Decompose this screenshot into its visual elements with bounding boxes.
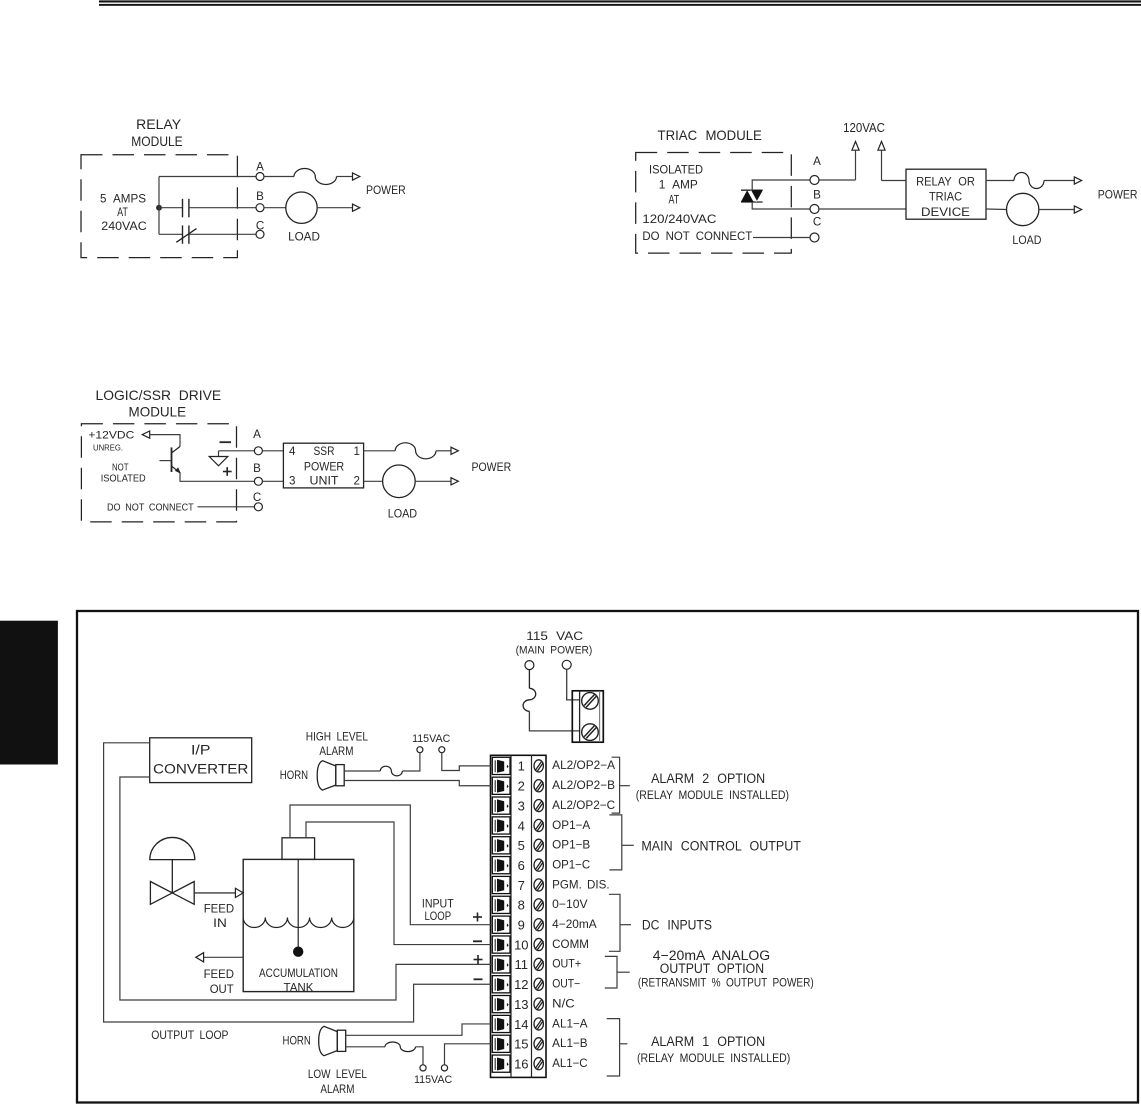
- terminal 14 connector: [492, 1015, 510, 1032]
- SSR power unit box U2: [283, 443, 363, 488]
- level probe float: [294, 947, 303, 956]
- liquid surface waves: [243, 918, 354, 928]
- terminal 9 connector: [492, 916, 510, 933]
- wire: terminal B to ssr unit pin 3: [262, 480, 283, 482]
- svg-text:DO NOT CONNECT: DO NOT CONNECT: [642, 230, 752, 243]
- svg-text:16: 16: [514, 1056, 528, 1071]
- bracket: alarm 2 group (terminals 1-3): [612, 757, 620, 813]
- label FEED IN: [204, 903, 234, 931]
- terminal 16 screw: [534, 1058, 543, 1070]
- power arrow (triac top): [1074, 177, 1081, 184]
- terminal 1 connector: [492, 757, 510, 774]
- wire: +12VDC to transistor collector: [150, 435, 180, 447]
- valve stem: [171, 860, 173, 893]
- svg-text:MODULE: MODULE: [129, 404, 187, 420]
- valve actuator dome: [150, 837, 195, 859]
- bracket: analog output (terminals 11-12): [605, 956, 617, 988]
- svg-text:INPUT: INPUT: [422, 898, 454, 911]
- svg-text:0−10V: 0−10V: [552, 899, 588, 911]
- svg-text:10: 10: [514, 937, 528, 952]
- svg-text:ACCUMULATION: ACCUMULATION: [259, 967, 338, 980]
- terminal 2 connector: [492, 777, 510, 794]
- wire: ground to terminal A: [219, 450, 255, 452]
- svg-text:(RETRANSMIT % OUTPUT POWER): (RETRANSMIT % OUTPUT POWER): [638, 977, 814, 989]
- svg-text:8: 8: [518, 898, 525, 913]
- svg-text:13: 13: [514, 997, 528, 1012]
- label FEED OUT: [204, 968, 234, 996]
- terminal 6 connector: [492, 857, 510, 874]
- label ACCUMULATION TANK: [259, 967, 338, 995]
- fuse F6 (low alarm): [385, 1042, 416, 1052]
- wire: device to load: [986, 208, 1007, 211]
- svg-text:C: C: [813, 216, 821, 229]
- svg-text:ISOLATED: ISOLATED: [649, 164, 703, 177]
- wire: fuse to 115vac terminal (low): [416, 1047, 424, 1065]
- fuse F1 (power line): [294, 169, 337, 185]
- fuse F3 (ssr power line): [395, 443, 436, 459]
- terminal A: [256, 161, 264, 181]
- svg-text:MODULE: MODULE: [131, 133, 182, 149]
- load L1 (lamp circle): [286, 192, 317, 223]
- power arrow (ssr bottom): [451, 478, 458, 485]
- svg-text:POWER: POWER: [1098, 189, 1138, 202]
- svg-text:1 AMP: 1 AMP: [659, 179, 698, 192]
- svg-text:1: 1: [518, 759, 525, 774]
- power arrow (triac bottom): [1074, 206, 1081, 213]
- ground symbol: [209, 451, 228, 466]
- node: relay common junction: [157, 205, 162, 210]
- svg-text:15: 15: [514, 1037, 528, 1052]
- terminal 5 screw: [534, 839, 543, 851]
- svg-text:AL2/OP2−C: AL2/OP2−C: [552, 800, 615, 812]
- svg-text:FEED: FEED: [204, 968, 234, 981]
- bracket tick alarm 2: [620, 785, 630, 787]
- svg-text:3: 3: [289, 474, 295, 487]
- svg-text:TRIAC MODULE: TRIAC MODULE: [658, 127, 762, 143]
- main power terminal circle L: [525, 661, 534, 670]
- label 4-20mA ANALOG OUTPUT OPTION: [638, 948, 814, 990]
- terminal A (logic): [253, 428, 262, 455]
- terminal 3 connector: [492, 797, 510, 814]
- label plus (below ground): [223, 467, 232, 476]
- svg-text:ALARM 2 OPTION: ALARM 2 OPTION: [651, 771, 765, 786]
- triac Q1 (bidirectional thyristor): [741, 190, 763, 202]
- svg-text:4: 4: [518, 818, 525, 833]
- svg-text:COMM: COMM: [552, 939, 589, 951]
- wire: C line left of contact: [159, 233, 182, 235]
- svg-text:LOW LEVEL: LOW LEVEL: [308, 1068, 367, 1081]
- wire: load to power arrow: [1039, 209, 1074, 211]
- svg-text:240VAC: 240VAC: [101, 220, 146, 233]
- svg-text:AL2/OP2−B: AL2/OP2−B: [552, 780, 615, 792]
- svg-text:OP1−B: OP1−B: [552, 840, 590, 852]
- wire: load to power arrow: [317, 207, 352, 209]
- terminal 8 connector: [492, 896, 510, 913]
- terminal 6 screw: [534, 859, 543, 871]
- wire: load to power arrow: [415, 480, 450, 482]
- terminal 11 screw: [534, 958, 543, 970]
- terminal 7 screw: [534, 879, 543, 891]
- terminal B (logic): [253, 462, 262, 486]
- svg-text:4: 4: [289, 445, 296, 458]
- svg-text:115VAC: 115VAC: [414, 1074, 452, 1086]
- svg-text:2: 2: [518, 779, 525, 794]
- svg-text:AL2/OP2−A: AL2/OP2−A: [552, 760, 615, 772]
- wire: fuse to power block lower screw: [529, 711, 579, 731]
- svg-text:C: C: [253, 491, 261, 504]
- 115vac circle 2 (low): [441, 1065, 447, 1071]
- accumulation tank body: [243, 859, 354, 991]
- svg-text:ALARM: ALARM: [320, 1083, 354, 1096]
- logic/ssr drive module title: [96, 387, 222, 419]
- wire: fuse to power arrow: [337, 176, 353, 178]
- svg-text:PGM. DIS.: PGM. DIS.: [552, 879, 609, 891]
- label 115 VAC (MAIN POWER): [516, 629, 593, 657]
- svg-text:TANK: TANK: [284, 982, 314, 995]
- bracket tick analog output: [617, 971, 630, 973]
- level probe: [297, 860, 299, 947]
- terminal 1 screw: [534, 760, 543, 772]
- terminal C (triac): [810, 216, 821, 242]
- bracket: main control output (terminals 4-6): [609, 815, 621, 870]
- I/P converter box: [150, 738, 252, 783]
- wire: terminal A to fuse: [264, 176, 294, 178]
- 115vac circle 1 (high): [417, 747, 423, 753]
- terminal 12 connector: [492, 976, 510, 993]
- svg-text:POWER: POWER: [366, 184, 406, 197]
- +12VDC arrow (open, pointing left): [142, 431, 150, 438]
- svg-text:14: 14: [514, 1017, 528, 1032]
- relay module title: [131, 116, 182, 149]
- svg-text:CONVERTER: CONVERTER: [153, 761, 248, 777]
- svg-text:DO NOT CONNECT: DO NOT CONNECT: [107, 502, 194, 514]
- svg-text:1: 1: [354, 445, 360, 458]
- svg-text:AL1−B: AL1−B: [552, 1038, 588, 1050]
- wire: device to fuse: [986, 180, 1014, 182]
- svg-text:A: A: [253, 428, 261, 441]
- svg-text:6: 6: [518, 858, 525, 873]
- svg-text:9: 9: [518, 918, 525, 933]
- svg-text:POWER: POWER: [472, 461, 512, 474]
- power block screw 1: [582, 693, 599, 710]
- page edge black tab: [0, 621, 58, 765]
- feed out arrow: [196, 953, 243, 962]
- terminal 9 screw: [534, 919, 543, 931]
- relay-or-triac device box U1: [906, 169, 986, 219]
- svg-text:OUTPUT OPTION: OUTPUT OPTION: [660, 961, 764, 976]
- svg-text:DEVICE: DEVICE: [921, 205, 970, 219]
- wire: 115vac to terminal 1: [442, 753, 493, 771]
- svg-text:OUT: OUT: [210, 983, 234, 996]
- fuse F4 (main power): [523, 688, 536, 711]
- svg-text:LOOP: LOOP: [424, 910, 451, 923]
- terminal 16 connector: [492, 1055, 510, 1072]
- svg-text:7: 7: [518, 878, 525, 893]
- svg-text:UNREG.: UNREG.: [93, 443, 123, 453]
- power arrow (top): [353, 173, 360, 180]
- terminal B (triac): [810, 188, 821, 213]
- svg-text:RELAY: RELAY: [136, 116, 182, 132]
- svg-text:AL1−C: AL1−C: [552, 1058, 587, 1070]
- wire: pin 1 to fuse: [364, 450, 396, 452]
- terminal 8 screw: [534, 899, 543, 911]
- wire: B line right of contact: [189, 207, 256, 209]
- svg-text:FEED: FEED: [204, 903, 234, 916]
- terminal 10 screw: [534, 938, 543, 950]
- svg-text:TRIAC: TRIAC: [929, 190, 962, 204]
- power terminal block: [572, 691, 603, 742]
- wire: horn top to terminal 14: [346, 1024, 493, 1035]
- svg-text:POWER: POWER: [304, 461, 344, 474]
- wire: terminal A to supply: [819, 179, 856, 181]
- svg-text:A: A: [256, 161, 264, 174]
- svg-text:HIGH LEVEL: HIGH LEVEL: [306, 730, 369, 743]
- load L2 (lamp circle): [1007, 193, 1039, 225]
- svg-text:ALARM: ALARM: [319, 745, 353, 758]
- svg-text:(RELAY MODULE INSTALLED): (RELAY MODULE INSTALLED): [636, 790, 789, 802]
- terminal 4 connector: [492, 817, 510, 834]
- terminal 4 screw: [534, 819, 543, 831]
- terminal 15 connector: [492, 1035, 510, 1052]
- svg-text:AT: AT: [668, 194, 679, 207]
- terminal C (logic): [253, 491, 263, 511]
- wire: terminal B to device: [819, 208, 906, 210]
- wire: fuse to 115vac terminal: [402, 753, 420, 772]
- svg-text:(MAIN POWER): (MAIN POWER): [516, 645, 593, 657]
- wire: N terminal to power block upper screw: [567, 669, 580, 700]
- svg-text:LOAD: LOAD: [288, 230, 320, 243]
- svg-text:A: A: [813, 155, 821, 168]
- wire: probe + to terminal 9 (input loop): [290, 805, 493, 925]
- 115vac circle 2 (high): [439, 747, 445, 753]
- terminal 12 screw: [534, 978, 543, 990]
- svg-text:HORN: HORN: [283, 1035, 311, 1048]
- svg-text:I/P: I/P: [191, 742, 210, 758]
- svg-text:11: 11: [515, 957, 529, 972]
- power arrow (ssr top): [451, 447, 458, 454]
- relay contact (NC) on C: [176, 225, 196, 243]
- terminal 13 connector: [492, 996, 510, 1013]
- terminal C: [256, 220, 264, 239]
- svg-text:120VAC: 120VAC: [843, 121, 885, 135]
- tank lid: [282, 838, 315, 860]
- wire: common vertical: [158, 177, 160, 235]
- svg-text:RELAY OR: RELAY OR: [916, 175, 975, 189]
- relay contact (NO) on B: [183, 199, 189, 218]
- label NOT ISOLATED: [101, 462, 146, 484]
- wire: fuse to power arrow: [436, 450, 451, 452]
- relay module dashed enclosure: [81, 155, 237, 258]
- minus sign (terminal 10): [473, 940, 482, 942]
- svg-text:LOAD: LOAD: [1012, 234, 1041, 247]
- svg-text:B: B: [253, 462, 261, 475]
- plus sign (terminal 9): [473, 913, 482, 922]
- svg-text:4−20mA: 4−20mA: [552, 919, 597, 931]
- svg-text:B: B: [256, 190, 264, 203]
- svg-text:ALARM 1 OPTION: ALARM 1 OPTION: [651, 1034, 765, 1049]
- svg-text:SSR: SSR: [314, 445, 335, 458]
- terminal 7 connector: [492, 876, 510, 893]
- svg-text:B: B: [813, 188, 821, 201]
- wire: emitter to B line: [180, 473, 254, 481]
- svg-text:OP1−C: OP1−C: [552, 859, 590, 871]
- label ALARM 1 OPTION: [637, 1034, 790, 1065]
- svg-text:MAIN CONTROL OUTPUT: MAIN CONTROL OUTPUT: [641, 838, 801, 853]
- wire: horn top to fuse: [344, 770, 380, 772]
- svg-text:AL1−A: AL1−A: [552, 1018, 588, 1030]
- label minus (above ground): [220, 441, 232, 443]
- wire: C line right of contact: [189, 233, 256, 235]
- wire: probe - to terminal 10: [306, 822, 493, 945]
- wire: converter output + (to terminal 11): [120, 777, 493, 1000]
- logic module dashed enclosure: [81, 424, 236, 522]
- terminal 3 screw: [534, 800, 543, 812]
- transistor Q2 (NPN driver): [160, 447, 181, 474]
- terminal 2 screw: [534, 780, 543, 792]
- svg-text:120/240VAC: 120/240VAC: [642, 213, 716, 226]
- 120VAC supply arrow 1: [852, 142, 859, 181]
- svg-text:OP1−A: OP1−A: [552, 820, 590, 832]
- bracket tick main control: [622, 844, 634, 846]
- triac module rating label: [642, 164, 716, 226]
- svg-text:NOT: NOT: [112, 462, 129, 473]
- bracket: dc inputs (terminals 8-10): [609, 894, 620, 951]
- triac module dashed enclosure: [636, 153, 792, 254]
- feed in arrow: [194, 888, 243, 897]
- main power terminal circle N: [562, 660, 571, 669]
- svg-text:IN: IN: [213, 917, 227, 930]
- load L3 (lamp circle): [383, 465, 416, 498]
- 115vac circle 1 (low): [420, 1065, 426, 1071]
- wire: horn bottom to fuse: [346, 1046, 385, 1048]
- svg-text:LOAD: LOAD: [388, 507, 417, 520]
- terminal 15 screw: [534, 1038, 543, 1050]
- svg-text:ISOLATED: ISOLATED: [101, 473, 146, 484]
- wire: fuse to power arrow: [1044, 180, 1074, 182]
- svg-text:AT: AT: [117, 206, 128, 219]
- bracket: alarm 1 group (terminals 14-16): [607, 1019, 620, 1076]
- wire: supply arrow 2 to device: [882, 180, 907, 182]
- relay module rating label 5 AMPS AT 240VAC: [100, 193, 147, 234]
- svg-text:LOGIC/SSR DRIVE: LOGIC/SSR DRIVE: [96, 387, 222, 403]
- svg-text:OUTPUT LOOP: OUTPUT LOOP: [151, 1029, 228, 1042]
- page header double rule: [99, 0, 1141, 5]
- svg-text:HORN: HORN: [280, 769, 308, 782]
- wire: DO NOT CONNECT to terminal C: [753, 237, 810, 239]
- 120VAC supply arrow 2: [878, 142, 885, 181]
- wire: horn bottom to terminal 2: [344, 781, 492, 786]
- wire: B line left of contact: [159, 207, 182, 209]
- fuse F2 (triac power line): [1014, 173, 1044, 189]
- terminal A (triac): [810, 155, 821, 185]
- terminal B: [256, 190, 264, 212]
- terminal 11 connector: [492, 956, 510, 973]
- wire: triac to B line: [752, 202, 810, 209]
- svg-text:DC INPUTS: DC INPUTS: [642, 917, 712, 932]
- terminal strip body: [491, 755, 547, 1077]
- label INPUT LOOP: [422, 898, 454, 923]
- svg-text:OUT+: OUT+: [552, 959, 581, 971]
- svg-text:5: 5: [518, 838, 525, 853]
- wire: L terminal down to fuse: [528, 670, 530, 689]
- terminal 14 screw: [534, 1018, 543, 1030]
- svg-text:12: 12: [514, 977, 528, 992]
- svg-text:+12VDC: +12VDC: [88, 430, 134, 442]
- svg-text:3: 3: [518, 798, 525, 813]
- svg-text:115 VAC: 115 VAC: [526, 629, 583, 643]
- terminal 5 connector: [492, 837, 510, 854]
- wire: converter output loop (to terminal 12): [104, 743, 493, 1022]
- power arrow (bottom): [353, 204, 360, 211]
- label ALARM 2 OPTION: [636, 771, 789, 802]
- svg-text:N/C: N/C: [552, 998, 574, 1010]
- label HIGH LEVEL ALARM: [306, 730, 369, 758]
- wire: DO NOT CONNECT to terminal C: [198, 506, 255, 508]
- wire: terminal B to load: [264, 207, 286, 209]
- svg-text:OUT−: OUT−: [552, 979, 580, 991]
- wire: pin 2 to load: [364, 480, 383, 482]
- wire: triac to A line: [752, 180, 810, 190]
- control valve body: [150, 882, 194, 905]
- svg-text:UNIT: UNIT: [310, 474, 339, 487]
- application diagram border: [77, 611, 1138, 1103]
- svg-text:(RELAY MODULE INSTALLED): (RELAY MODULE INSTALLED): [637, 1053, 790, 1065]
- minus sign (terminal 12): [474, 978, 483, 980]
- svg-text:115VAC: 115VAC: [412, 733, 450, 745]
- label LOW LEVEL ALARM: [308, 1068, 367, 1096]
- plus sign (terminal 11): [474, 955, 483, 964]
- horn H1 (high level): [317, 761, 344, 790]
- bracket tick alarm 1: [620, 1043, 628, 1045]
- wire: A line to terminal: [159, 176, 256, 178]
- terminal 10 connector: [492, 936, 510, 953]
- fuse F5 (high alarm): [380, 766, 402, 776]
- wire: terminal A to ssr unit pin 4: [262, 450, 283, 452]
- bracket tick dc inputs: [620, 924, 631, 926]
- horn H2 (low level): [319, 1026, 346, 1055]
- terminal 13 screw: [534, 998, 543, 1010]
- svg-text:5 AMPS: 5 AMPS: [100, 193, 146, 206]
- power block screw 2: [582, 724, 599, 741]
- wire: 115vac to terminal 15: [445, 1044, 493, 1065]
- svg-text:2: 2: [354, 474, 360, 487]
